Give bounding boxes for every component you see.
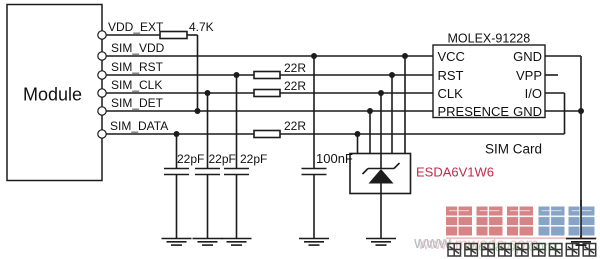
U1 pin 3 from SIM_CLK <box>380 93 382 154</box>
U1 internal cathode line <box>380 154 382 169</box>
pin SIM_CLK <box>98 89 106 97</box>
svg-text:SIM_VDD: SIM_VDD <box>111 41 165 55</box>
svg-text:VCC: VCC <box>438 49 465 64</box>
ground under C3 <box>222 239 252 246</box>
wire GND top stub <box>545 55 581 57</box>
resistor R 22R CLK body <box>254 90 280 97</box>
svg-text:ESDA6V1W6: ESDA6V1W6 <box>416 165 494 180</box>
watermark char pei blue <box>539 207 565 236</box>
capacitor C3 lead bottom <box>236 175 238 239</box>
node C4/SIM_VDD junction <box>311 53 317 59</box>
wire SIM_RST row right <box>280 74 433 76</box>
wire SIM_CLK row left <box>106 92 254 94</box>
module M1 <box>7 5 102 181</box>
capacitor C2 lead bottom <box>207 175 209 239</box>
node GND right junction <box>578 108 584 114</box>
watermark dark slogan characters <box>448 244 596 257</box>
pin SIM_DATA <box>98 130 106 138</box>
capacitor C3 22pF lead top <box>236 75 238 169</box>
U1 pin 1 from SIM_DATA <box>357 134 359 154</box>
svg-text:SIM Card: SIM Card <box>485 142 542 157</box>
watermark char di red <box>477 207 503 236</box>
svg-text:22R: 22R <box>284 61 306 75</box>
svg-text:PRESENCE: PRESENCE <box>438 104 510 119</box>
svg-text:SIM_DATA: SIM_DATA <box>110 119 168 133</box>
wire GND right vertical (over watermark) <box>580 200 582 239</box>
svg-text:SIM_DET: SIM_DET <box>111 96 164 110</box>
module pin circles <box>98 31 106 138</box>
TVS array U1 ESDA6V1W6 box <box>350 154 411 194</box>
svg-text:GND: GND <box>513 49 542 64</box>
svg-text:22pF: 22pF <box>209 152 236 166</box>
node C2/SIM_CLK junction <box>205 90 211 96</box>
node U1p3/SIM_CLK junction <box>378 90 384 96</box>
resistor R 4.7K body <box>160 32 187 39</box>
pin SIM_VDD <box>98 52 106 60</box>
wire GND right vertical <box>580 56 582 239</box>
svg-text:SIM_CLK: SIM_CLK <box>111 78 162 92</box>
wire SIM_DATA row left <box>106 133 254 135</box>
svg-text:VDD_EXT: VDD_EXT <box>108 20 164 34</box>
U1 pin 4 from SIM_RST <box>391 75 393 154</box>
ground under U1 <box>366 239 396 246</box>
svg-text:www: www <box>413 233 452 252</box>
svg-text:22R: 22R <box>284 119 306 133</box>
capacitor C4 lead bottom <box>313 175 315 239</box>
capacitor C3 plates <box>224 168 249 170</box>
node U1p1/SIM_DATA junction <box>355 131 361 137</box>
watermark logo area <box>413 207 597 257</box>
svg-text:22pF: 22pF <box>177 152 204 166</box>
svg-text:22R: 22R <box>284 79 306 93</box>
node U1p5/SIM_VDD junction <box>402 53 408 59</box>
svg-text:RST: RST <box>438 68 464 83</box>
wire VPP stub <box>545 74 558 76</box>
ground under C2 <box>193 239 223 246</box>
capacitor C4 100nF lead top <box>313 56 315 169</box>
node U1p4/SIM_RST junction <box>389 72 395 78</box>
watermark char xun blue <box>569 207 595 236</box>
ground right <box>566 239 596 246</box>
wire SIM_DET row <box>106 110 433 112</box>
svg-text:SIM_RST: SIM_RST <box>111 60 164 74</box>
svg-text:I/O: I/O <box>525 86 542 101</box>
watermark underline <box>446 237 597 239</box>
pin VDD_EXT <box>98 31 106 39</box>
node C1/SIM_DATA junction <box>174 131 180 137</box>
node C3/SIM_RST junction <box>234 72 240 78</box>
U1 TVS triangle <box>369 169 394 184</box>
ground under C1 <box>162 239 192 246</box>
connector J1 MOLEX-91228 box <box>433 45 545 118</box>
capacitor C4 plates <box>302 168 327 170</box>
capacitor C1 22pF lead top <box>176 134 178 169</box>
watermark char yi red <box>446 207 472 236</box>
node U1p2/SIM_DET junction <box>367 108 373 114</box>
svg-text:CLK: CLK <box>438 86 464 101</box>
watermark char tuo red <box>507 207 533 236</box>
wire SIM_CLK row right <box>280 92 433 94</box>
wire 4.7K down to SIM_DET <box>197 35 199 111</box>
svg-text:Module: Module <box>23 85 82 105</box>
U1 pin 5 from SIM_VDD <box>404 56 406 154</box>
wire 4.7K to corner <box>187 34 198 36</box>
capacitor C1 lead bottom <box>176 175 178 239</box>
wire SIM_VDD row <box>106 55 433 57</box>
svg-text:22pF: 22pF <box>240 152 267 166</box>
svg-text:MOLEX-91228: MOLEX-91228 <box>448 32 531 46</box>
junction dots <box>174 53 585 137</box>
resistor R 22R RST body <box>254 72 280 79</box>
ground under C4 <box>299 239 329 246</box>
svg-text:4.7K: 4.7K <box>189 20 214 34</box>
svg-text:GND: GND <box>513 104 542 119</box>
wire GND bottom stub <box>545 110 581 112</box>
U1 pin 2 from SIM_DET <box>369 111 371 154</box>
wire VDD_EXT row <box>106 34 160 36</box>
wire SIM_DATA row right <box>280 133 565 135</box>
node 4.7K/SIM_DET junction <box>195 108 201 114</box>
wire SIM_RST row left <box>106 74 254 76</box>
svg-text:VPP: VPP <box>516 68 542 83</box>
U1 zener bar <box>368 168 394 170</box>
resistor R 22R DATA body <box>254 131 280 138</box>
grounds <box>162 239 597 246</box>
capacitor C2 plates <box>195 168 220 170</box>
wire I/O stub <box>545 92 565 94</box>
ground right (over watermark) <box>566 239 596 246</box>
svg-text:100nF: 100nF <box>316 151 353 166</box>
capacitor C2 22pF lead top <box>207 93 209 169</box>
pin SIM_DET <box>98 107 106 115</box>
pin SIM_RST <box>98 71 106 79</box>
U1 anode line <box>380 184 382 239</box>
capacitor C1 plates <box>164 168 189 170</box>
wire DATA up to IO <box>564 93 566 134</box>
